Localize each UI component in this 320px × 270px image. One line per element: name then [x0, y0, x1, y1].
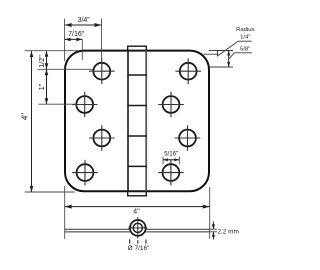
hole row4 left [77, 164, 94, 181]
svg-text:1/2": 1/2" [37, 55, 46, 68]
hole row2 left [76, 96, 93, 113]
radius callout: 5/8 vertical dimension arrow [228, 51, 230, 68]
leader 5/8 [229, 53, 235, 59]
svg-text:5/16": 5/16" [164, 150, 178, 157]
knuckle division 1 [127, 74, 147, 76]
svg-text:1/4": 1/4" [240, 35, 250, 41]
2.2 mm thickness arrows [212, 222, 214, 230]
radius callout: corner tangent extension [209, 66, 233, 68]
svg-text:3/4": 3/4" [78, 17, 91, 24]
leader 1/4 [217, 41, 238, 56]
side view crosshair [137, 217, 139, 239]
extension line top edge (left) [25, 50, 78, 52]
bottom 4" dim line [65, 206, 210, 208]
extension line hole row1 [38, 68, 94, 70]
side view leaf bar [65, 227, 210, 232]
svg-text:Radius: Radius [236, 27, 254, 33]
extension right [209, 187, 211, 239]
dimension 1/2" [46, 51, 48, 70]
dimension 4" (bottom) extension left [64, 186, 66, 239]
hole row3 left [93, 130, 110, 147]
svg-text:1": 1" [37, 83, 46, 90]
knuckle division 4 [127, 165, 147, 167]
barrel right side [145, 51, 147, 192]
extension line left (shared by 3/4 and 7/16) [64, 19, 66, 62]
dimension 7/16" [65, 38, 83, 40]
dimension 5/16" (hole dia) [162, 157, 164, 165]
dimension 1" [46, 69, 48, 104]
hole crosshairs [72, 58, 201, 185]
extension line plate bottom (left) [25, 191, 75, 193]
svg-text:4": 4" [133, 209, 140, 216]
hole row3 right [179, 130, 196, 147]
radius callout: 1/4 radius step line [204, 53, 218, 55]
extension line at hole column [101, 19, 103, 61]
hole row1 right [180, 63, 197, 80]
extension line hole row2 [39, 103, 77, 105]
hinge barrel top cap [128, 46, 147, 50]
knuckle division 2 [127, 105, 147, 107]
side view pin inner circle [133, 223, 142, 232]
svg-text:5/8": 5/8" [240, 47, 250, 53]
radius callout: top edge extension [209, 50, 233, 52]
svg-text:7/16": 7/16" [68, 31, 85, 38]
side view barrel outer circle [130, 220, 146, 236]
dimension 4" (left vertical) [31, 51, 33, 192]
hole row4 right [163, 164, 180, 181]
hole row2 right [163, 96, 180, 113]
hole row1 left [93, 63, 110, 80]
3/4 arrows [65, 23, 72, 27]
knuckle division 3 [127, 135, 147, 137]
screw holes [76, 63, 196, 181]
svg-text:Ø 7/16": Ø 7/16" [128, 245, 151, 252]
svg-text:2.2 mm: 2.2 mm [218, 228, 239, 235]
hinge barrel bottom cap [128, 191, 147, 196]
barrel left side [127, 51, 129, 192]
hinge plate outline (front view) [65, 51, 209, 192]
dimension 3/4" [65, 19, 102, 62]
svg-text:4": 4" [21, 113, 30, 120]
dia 7/16 ticks [129, 239, 131, 243]
